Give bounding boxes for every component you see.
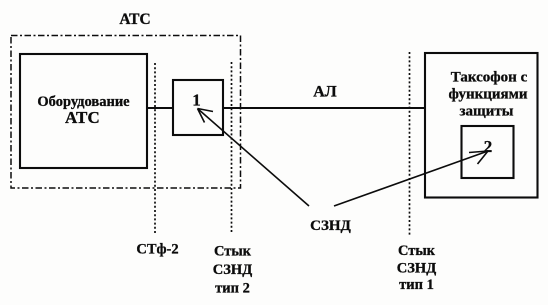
arrow from СЗНД to box 1	[198, 109, 310, 207]
box 2 (СЗНД unit in taxophone)	[462, 126, 514, 178]
wire: Оборудование АТС to box 1	[147, 107, 173, 109]
svg-text:тип 2: тип 2	[215, 281, 250, 297]
svg-text:СЗНД: СЗНД	[397, 261, 436, 277]
svg-text:СТф-2: СТф-2	[136, 242, 178, 258]
svg-text:защиты: защиты	[460, 104, 514, 120]
svg-text:АТС: АТС	[119, 11, 150, 28]
interface line Стык СЗНД тип 1 (vertical dotted)	[409, 52, 411, 235]
interface line СТф-2 (vertical dotted)	[154, 63, 156, 233]
svg-text:Таксофон с: Таксофон с	[451, 70, 528, 86]
dashed boundary box АТС	[11, 36, 241, 189]
svg-text:Стык: Стык	[398, 243, 436, 259]
svg-text:2: 2	[484, 137, 493, 156]
svg-text:тип 1: тип 1	[399, 277, 434, 293]
box Таксофон с функциями защиты	[425, 53, 538, 198]
wire АЛ: box 1 to Таксофон	[223, 107, 425, 109]
svg-text:1: 1	[192, 91, 201, 110]
box Оборудование АТС	[20, 54, 147, 168]
svg-text:АЛ: АЛ	[313, 84, 337, 101]
arrow from СЗНД to box 2	[334, 151, 488, 206]
svg-text:АТС: АТС	[65, 108, 100, 127]
svg-text:Стык: Стык	[214, 244, 252, 260]
svg-text:СЗНД: СЗНД	[213, 262, 252, 278]
svg-text:функциями: функциями	[448, 87, 527, 103]
box 1 (СЗНД unit in АТС)	[173, 80, 223, 135]
interface line Стык СЗНД тип 2 (vertical dotted)	[231, 62, 233, 233]
svg-text:СЗНД: СЗНД	[310, 218, 351, 234]
